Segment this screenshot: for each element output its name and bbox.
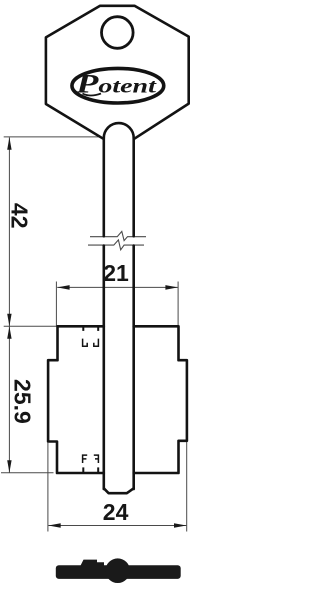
svg-text:25.9: 25.9	[10, 379, 36, 424]
svg-text:24: 24	[103, 499, 129, 525]
svg-text:21: 21	[103, 260, 129, 286]
svg-text:42: 42	[7, 203, 33, 229]
svg-text:Potent: Potent	[75, 69, 157, 98]
